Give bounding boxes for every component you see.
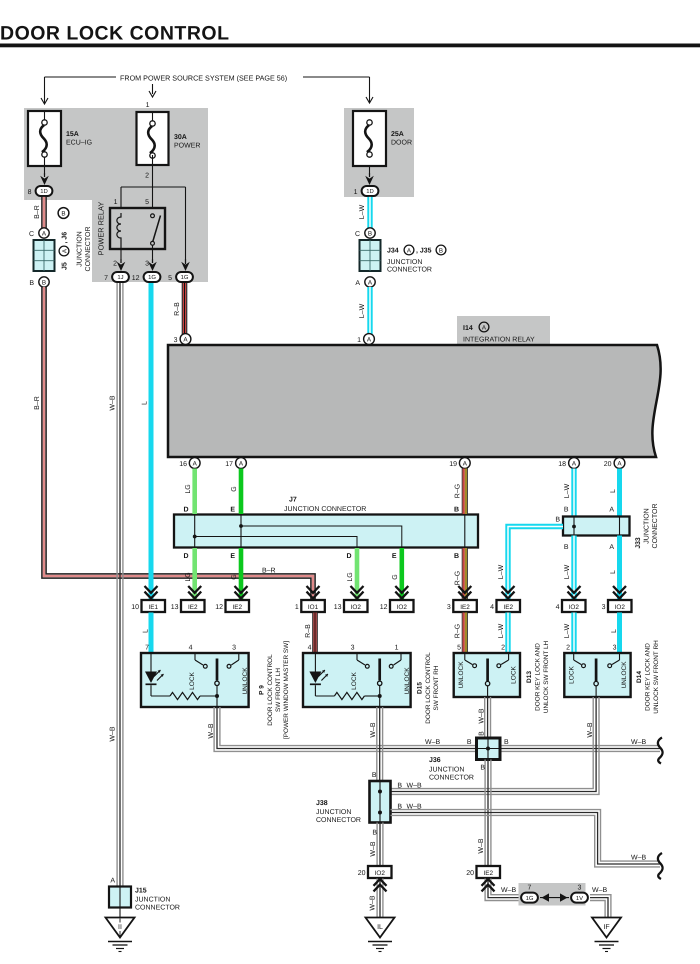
svg-text:E: E: [392, 553, 397, 560]
svg-text:IE1: IE1: [148, 604, 158, 611]
svg-text:R–G: R–G: [455, 571, 462, 585]
svg-text:B: B: [454, 507, 459, 514]
svg-text:W–B: W–B: [425, 739, 441, 746]
svg-text:1: 1: [295, 604, 299, 611]
J7 internal wire R-G passthrough: [464, 515, 466, 547]
wire fuse 30A to power relay: [152, 112, 154, 214]
svg-text:POWER: POWER: [174, 143, 200, 150]
svg-text:A: A: [110, 878, 115, 885]
svg-text:LG: LG: [185, 484, 192, 493]
wire R-G from 3 IE2 to D13: [455, 613, 468, 654]
junction connector J34 (A), J35 (B): [355, 228, 446, 287]
svg-text:D: D: [183, 507, 188, 514]
break continuation symbol right of J36 wire: [658, 738, 663, 764]
wire LG from J7 to 13 IE2: [183, 548, 201, 599]
svg-text:7: 7: [104, 275, 108, 282]
svg-text:IE2: IE2: [460, 604, 470, 611]
svg-text:19: 19: [449, 461, 457, 468]
svg-text:3: 3: [174, 337, 178, 344]
svg-text:16: 16: [179, 461, 187, 468]
svg-text:4: 4: [556, 604, 560, 611]
svg-text:L–W: L–W: [498, 623, 505, 638]
connector 7 (1J): [104, 272, 129, 282]
svg-text:DOOR LOCK CONTROL: DOOR LOCK CONTROL: [267, 654, 274, 726]
svg-text:JUNCTION: JUNCTION: [387, 259, 422, 266]
svg-text:3: 3: [447, 604, 451, 611]
svg-text:IO2: IO2: [615, 604, 626, 611]
wire L from J33 to 3 IO2: [609, 536, 626, 600]
junction connector J5 (A), J6 (B): [29, 208, 92, 288]
wire B-R from J6 down left side: [34, 287, 315, 599]
svg-text:DOOR: DOOR: [391, 140, 412, 147]
svg-text:A: A: [355, 280, 360, 287]
svg-text:20: 20: [604, 461, 612, 468]
svg-text:CONNECTOR: CONNECTOR: [387, 267, 432, 274]
connector 4 IE2: [490, 600, 520, 612]
svg-text:1: 1: [354, 189, 358, 196]
wire B-R from 1D to J5: [34, 197, 46, 228]
svg-text:10: 10: [131, 604, 139, 611]
svg-text:12: 12: [132, 275, 140, 282]
connector 20 IO2: [358, 866, 392, 878]
wire W-B from D14 down to J38 branch: [391, 697, 600, 794]
svg-text:D14: D14: [636, 671, 643, 683]
connector 3 IE2: [447, 600, 477, 612]
wire relay pin 3 to connector 1G: [148, 245, 157, 271]
svg-text:J38: J38: [316, 800, 328, 807]
svg-text:B: B: [564, 507, 569, 514]
relay I14 INTEGRATION RELAY label: [457, 316, 550, 345]
svg-text:B–R: B–R: [262, 568, 276, 575]
wire branch to connector 5 1G: [181, 259, 190, 271]
wire W-B from D15 to J38: [370, 707, 383, 781]
svg-text:3: 3: [351, 645, 355, 652]
svg-text:DOOR LOCK CONTROL: DOOR LOCK CONTROL: [0, 23, 229, 45]
wire W-B from P9 to junction J36 and right: [208, 707, 660, 751]
svg-text:W–B: W–B: [370, 895, 377, 911]
svg-text:B: B: [564, 544, 569, 551]
fuse 30A POWER: [137, 112, 201, 165]
connector 12 IO2: [380, 600, 414, 612]
svg-text:JUNCTION: JUNCTION: [316, 809, 351, 816]
svg-text:POWER RELAY: POWER RELAY: [97, 202, 106, 256]
svg-text:L: L: [611, 629, 618, 633]
wire G from relay pin 17 into J7: [231, 469, 241, 515]
svg-text:A: A: [609, 544, 614, 551]
svg-text:13: 13: [334, 604, 342, 611]
svg-text:J5: J5: [62, 262, 69, 270]
connector 12 (1G): [132, 272, 161, 282]
svg-text:1V: 1V: [576, 895, 583, 902]
wire W-B from 20 IE2 to 7 1G: [482, 879, 519, 901]
svg-text:IE2: IE2: [188, 604, 198, 611]
ground II: [106, 918, 135, 952]
svg-text:SW FRONT LH: SW FRONT LH: [275, 668, 282, 712]
svg-text:C: C: [355, 231, 360, 238]
wire B-R horizontal to 1 IO1: [262, 568, 320, 599]
svg-text:B–R: B–R: [34, 205, 41, 219]
connector 13 IE2: [171, 600, 205, 612]
svg-text:B: B: [397, 783, 402, 790]
svg-text:A: A: [61, 248, 68, 253]
svg-text:W–B: W–B: [110, 726, 117, 742]
svg-text:, J35: , J35: [416, 248, 432, 255]
svg-text:B: B: [504, 739, 509, 746]
svg-text:3: 3: [613, 645, 617, 652]
ground IF: [592, 918, 621, 952]
wire L-W from 4 IO2 to D14: [564, 613, 574, 654]
svg-text:D15: D15: [416, 682, 423, 694]
svg-text:1: 1: [146, 102, 150, 109]
svg-text:B: B: [454, 553, 459, 560]
wire R-B from 1 IO1 to D15: [305, 613, 317, 654]
wire L-W from relay pin 18 to J33: [564, 469, 574, 517]
relay POWER RELAY: [97, 199, 165, 268]
svg-text:B–R: B–R: [34, 396, 41, 410]
svg-text:J33: J33: [635, 537, 642, 549]
svg-text:IE2: IE2: [483, 870, 493, 877]
pin 1 label of 30A fuse: [146, 102, 150, 109]
wire from power source to 15A fuse: [41, 77, 116, 104]
connector 10 IE1: [131, 600, 165, 612]
svg-text:B: B: [439, 247, 443, 254]
svg-text:CONNECTOR: CONNECTOR: [135, 905, 180, 912]
node D above J7: [183, 507, 188, 514]
svg-text:ECU–IG: ECU–IG: [66, 140, 92, 147]
svg-text:L: L: [143, 629, 150, 633]
svg-text:D: D: [183, 553, 188, 560]
switch D15 DOOR LOCK CONTROL SW FRONT RH: [303, 645, 440, 724]
chevron into 10 IE1: [145, 586, 158, 598]
wire W-B from J36 to 20 IE2: [478, 760, 491, 867]
svg-text:1G: 1G: [526, 895, 534, 902]
svg-text:L: L: [610, 570, 617, 574]
wire from power source to 25A fuse: [303, 77, 373, 103]
svg-text:JUNCTION: JUNCTION: [644, 508, 651, 543]
connector 4 IO2: [556, 600, 586, 612]
svg-text:1J: 1J: [117, 274, 123, 281]
wire fuse 15A to connector 1D: [40, 111, 49, 185]
svg-text:B: B: [368, 230, 372, 237]
svg-text:UNLOCK: UNLOCK: [458, 661, 465, 689]
svg-text:12: 12: [215, 604, 223, 611]
svg-text:W–B: W–B: [479, 708, 486, 724]
wire fuse 25A to connector 1D: [365, 166, 374, 185]
svg-text:R–G: R–G: [455, 484, 462, 498]
wire W-B from 1V to ground IF: [590, 887, 611, 917]
switch D13 DOOR KEY LOCK AND UNLOCK SW FRONT LH: [454, 640, 550, 713]
svg-text:CONNECTOR: CONNECTOR: [316, 817, 361, 824]
svg-text:UNLOCK SW FRONT RH: UNLOCK SW FRONT RH: [653, 640, 660, 714]
wire relay pin 2 to connector 1J: [117, 249, 126, 271]
junction connector J36: [429, 738, 500, 782]
svg-text:FROM POWER SOURCE SYSTEM (SEE: FROM POWER SOURCE SYSTEM (SEE PAGE 56): [120, 74, 287, 83]
wire from power source to 30A fuse: [149, 84, 156, 97]
svg-text:J7: J7: [289, 497, 297, 504]
svg-text:W–B: W–B: [592, 887, 608, 894]
svg-text:A: A: [609, 507, 614, 514]
wire W-B from D13 to J36: [479, 697, 491, 738]
svg-text:W–B: W–B: [501, 887, 517, 894]
wire L-W from 4 IE2 to D13: [498, 613, 508, 654]
svg-text:IO1: IO1: [308, 604, 319, 611]
svg-text:LOCK: LOCK: [351, 671, 358, 689]
svg-text:R–B: R–B: [305, 624, 312, 638]
svg-text:IO2: IO2: [569, 604, 580, 611]
svg-text:1: 1: [357, 337, 361, 344]
svg-text:E: E: [230, 507, 235, 514]
mating arrows between 1G and 1V: [540, 893, 569, 901]
connector 20 IE2: [466, 866, 500, 878]
svg-text:G: G: [392, 574, 399, 579]
wire W-B from J38 to right break: [391, 804, 661, 867]
svg-text:3: 3: [578, 885, 582, 892]
wire L-W from J33 to 4 IO2: [564, 536, 581, 600]
break continuation symbol lower right: [658, 853, 663, 879]
svg-text:7: 7: [528, 885, 532, 892]
J7 internal wire LG pin D: [193, 515, 357, 547]
wire R-G from relay pin 19 to J7: [454, 469, 467, 515]
svg-text:7: 7: [145, 645, 149, 652]
svg-text:1D: 1D: [366, 188, 374, 195]
switch D14 DOOR KEY LOCK AND UNLOCK SW FRONT RH: [564, 640, 660, 714]
svg-text:B: B: [29, 280, 34, 287]
svg-text:UNLOCK: UNLOCK: [404, 667, 411, 695]
svg-text:DOOR LOCK CONTROL: DOOR LOCK CONTROL: [425, 652, 432, 724]
wire R-B from 5 1G to integration relay pin 3: [174, 283, 187, 334]
wire L from 12 1G down to 10 IE1: [142, 283, 151, 599]
wire LG from J7 pin D to 13 IO2: [346, 548, 363, 599]
svg-text:, J6: , J6: [62, 232, 69, 244]
svg-text:B: B: [372, 772, 377, 779]
svg-text:4: 4: [308, 645, 312, 652]
fuse 15A ECU-IG: [28, 111, 92, 166]
gray highlight behind fuse 25A DOOR: [344, 108, 414, 197]
svg-text:IO2: IO2: [397, 604, 408, 611]
svg-text:2: 2: [566, 645, 570, 652]
svg-text:30A: 30A: [174, 134, 187, 141]
svg-text:5: 5: [168, 275, 172, 282]
svg-text:12: 12: [380, 604, 388, 611]
svg-text:DOOR KEY LOCK AND: DOOR KEY LOCK AND: [534, 643, 541, 711]
svg-text:L: L: [142, 401, 149, 405]
relay pin 19 (A): [449, 458, 470, 469]
wire G from J7 to 12 IE2: [230, 548, 247, 599]
wire L-W branch from J33 to 4 IE2: [498, 527, 563, 600]
relay I14 integration relay body: [168, 345, 661, 457]
svg-text:4: 4: [189, 645, 193, 652]
svg-text:UNLOCK: UNLOCK: [242, 667, 249, 695]
svg-text:5: 5: [145, 199, 149, 206]
svg-text:INTEGRATION RELAY: INTEGRATION RELAY: [463, 337, 535, 344]
svg-text:W–B: W–B: [631, 855, 647, 862]
svg-text:IO2: IO2: [375, 870, 386, 877]
svg-text:G: G: [231, 574, 238, 579]
svg-text:R–B: R–B: [174, 302, 181, 316]
svg-text:JUNCTION CONNECTOR: JUNCTION CONNECTOR: [284, 506, 366, 513]
svg-text:17: 17: [225, 461, 233, 468]
svg-text:B: B: [61, 211, 65, 218]
wire L-W from 1D to J34: [359, 197, 370, 228]
node E above J7: [230, 507, 235, 514]
svg-text:W–B: W–B: [407, 783, 423, 790]
svg-text:L–W: L–W: [359, 204, 366, 219]
svg-text:E: E: [230, 553, 235, 560]
svg-text:SW FRONT RH: SW FRONT RH: [433, 665, 440, 710]
svg-text:J36: J36: [429, 757, 441, 764]
svg-text:B: B: [467, 739, 472, 746]
svg-text:[POWER WINDOW MASTER SW]: [POWER WINDOW MASTER SW]: [283, 641, 290, 739]
svg-text:15A: 15A: [66, 131, 79, 138]
svg-text:3: 3: [602, 604, 606, 611]
svg-text:L–W: L–W: [359, 303, 366, 318]
wire L from relay pin 20 to J33: [609, 469, 619, 517]
svg-text:W–B: W–B: [631, 739, 647, 746]
svg-text:D: D: [346, 553, 351, 560]
label B W-B on J38 to D14 wire: [397, 783, 422, 790]
wire LG from relay pin 16 into J7: [185, 469, 195, 515]
svg-text:L–W: L–W: [564, 483, 571, 498]
svg-text:B: B: [372, 830, 377, 837]
svg-text:LG: LG: [347, 572, 354, 581]
svg-text:IL: IL: [377, 924, 383, 931]
svg-text:W–B: W–B: [407, 804, 423, 811]
svg-text:2: 2: [145, 173, 149, 180]
connector 1 IO1: [295, 600, 325, 612]
svg-text:CONNECTOR: CONNECTOR: [429, 775, 474, 782]
connector 12 IE2: [215, 600, 249, 612]
svg-text:P 9: P 9: [258, 685, 265, 695]
svg-text:JUNCTION: JUNCTION: [429, 767, 464, 774]
relay pin 18 (A): [558, 458, 579, 469]
svg-text:I14: I14: [463, 325, 473, 332]
svg-text:L–W: L–W: [564, 623, 571, 638]
svg-text:DOOR KEY LOCK AND: DOOR KEY LOCK AND: [644, 643, 651, 711]
relay pin 17 (A): [225, 458, 246, 469]
svg-text:II: II: [118, 924, 122, 931]
connector 1 (1D): [354, 186, 379, 196]
junction connector J7: [174, 497, 478, 548]
junction connector J33: [555, 504, 659, 549]
svg-text:LOCK: LOCK: [511, 665, 518, 683]
gray highlight behind connectors 1G/1V at bottom: [519, 883, 586, 906]
svg-text:J34: J34: [387, 248, 399, 255]
svg-text:1G: 1G: [181, 274, 189, 281]
svg-text:L–W: L–W: [564, 564, 571, 579]
svg-text:2: 2: [113, 261, 117, 268]
svg-text:20: 20: [358, 870, 366, 877]
svg-text:JUNCTION: JUNCTION: [135, 897, 170, 904]
svg-text:JUNCTION: JUNCTION: [77, 231, 84, 266]
svg-text:IE2: IE2: [503, 604, 513, 611]
svg-text:LG: LG: [185, 572, 192, 581]
fuse 25A DOOR: [353, 111, 412, 166]
svg-text:L: L: [610, 489, 617, 493]
wire L from 3 IO2 to D14: [611, 613, 619, 654]
svg-text:R–G: R–G: [455, 624, 462, 638]
svg-text:W–B: W–B: [208, 723, 215, 739]
svg-text:UNLOCK: UNLOCK: [621, 661, 628, 689]
svg-text:B: B: [480, 765, 485, 772]
svg-text:B: B: [397, 804, 402, 811]
gray highlight behind fuses 15A/30A and power relay: [24, 108, 208, 282]
connector 3 IO2: [602, 600, 632, 612]
svg-text:C: C: [29, 231, 34, 238]
relay pin 3 (A): [174, 334, 191, 345]
pin 2 label of 30A fuse: [145, 173, 149, 180]
svg-text:3: 3: [232, 645, 236, 652]
svg-text:18: 18: [558, 461, 566, 468]
wire L-W from J34 to integration relay pin 1: [359, 287, 370, 334]
svg-text:W–B: W–B: [478, 838, 485, 854]
wire W-B from 20 IO2 to ground IL: [370, 879, 387, 918]
svg-text:B: B: [555, 517, 560, 524]
svg-text:B: B: [479, 731, 486, 736]
svg-text:D13: D13: [526, 671, 533, 683]
svg-text:1: 1: [395, 645, 399, 652]
relay pin 20 (A): [604, 458, 625, 469]
connector 7 (1G): [521, 885, 538, 903]
svg-text:1D: 1D: [40, 188, 48, 195]
svg-text:J15: J15: [135, 888, 147, 895]
svg-text:13: 13: [171, 604, 179, 611]
svg-text:W–B: W–B: [370, 722, 377, 738]
svg-text:A: A: [407, 247, 412, 254]
svg-text:G: G: [231, 486, 238, 491]
svg-text:8: 8: [28, 189, 32, 196]
power relay branch wire from fuse 30A: [121, 187, 186, 264]
connector 3 (1V): [571, 885, 588, 903]
svg-text:W–B: W–B: [587, 722, 594, 738]
svg-text:2: 2: [501, 645, 505, 652]
svg-text:CONNECTOR: CONNECTOR: [85, 227, 92, 272]
svg-text:1G: 1G: [148, 274, 156, 281]
relay pin 1 (A): [357, 334, 374, 345]
svg-text:B: B: [42, 279, 46, 286]
svg-text:IE2: IE2: [232, 604, 242, 611]
title: DOOR LOCK CONTROL heading: [0, 23, 700, 48]
connector 13 IO2: [334, 600, 368, 612]
svg-text:LOCK: LOCK: [569, 665, 576, 683]
label FROM POWER SOURCE SYSTEM (SEE PAGE 56): [120, 74, 287, 83]
connector 8 (1D): [28, 186, 53, 196]
svg-text:5: 5: [457, 645, 461, 652]
J7 internal wire G pin E: [239, 515, 402, 547]
svg-text:L–W: L–W: [498, 564, 505, 579]
svg-text:W–B: W–B: [370, 841, 377, 857]
ground IL: [366, 918, 395, 952]
svg-text:LOCK: LOCK: [189, 671, 196, 689]
relay pin 16 (A): [179, 458, 200, 469]
wire G from J7 pin E to 12 IO2: [392, 548, 408, 599]
wire W-B from 7 1J down to J15: [110, 283, 123, 887]
svg-text:CONNECTOR: CONNECTOR: [652, 504, 659, 549]
wire W-B from J38 to 20 IO2: [370, 823, 383, 867]
svg-text:IO2: IO2: [351, 604, 362, 611]
svg-text:1: 1: [114, 199, 118, 206]
connector 5 (1G): [168, 272, 193, 282]
svg-text:25A: 25A: [391, 131, 404, 138]
svg-text:20: 20: [466, 870, 474, 877]
svg-text:4: 4: [490, 604, 494, 611]
svg-text:3: 3: [145, 261, 149, 268]
wire R-G from J7 to 3 IE2: [454, 548, 471, 599]
switch P9 DOOR LOCK CONTROL SW FRONT LH: [141, 641, 290, 739]
svg-text:IF: IF: [603, 924, 609, 931]
svg-text:W–B: W–B: [110, 395, 117, 411]
svg-text:UNLOCK SW FRONT LH: UNLOCK SW FRONT LH: [543, 640, 550, 713]
junction connector J38: [316, 781, 391, 824]
